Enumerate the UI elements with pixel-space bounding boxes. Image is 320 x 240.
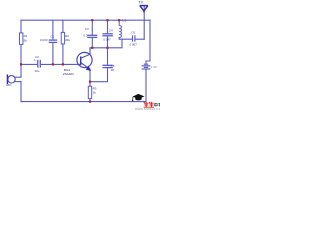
- wire antenna feed: [143, 6, 145, 40]
- watermark cap icon: [132, 94, 144, 102]
- capacitor C3 plates: [87, 35, 97, 37]
- junction node C4-top: [106, 19, 108, 21]
- svg-text:2SA401: 2SA401: [63, 72, 74, 76]
- watermark red character 2: [149, 102, 154, 108]
- transistor Q1 emitter: [81, 63, 91, 70]
- antenna TX: [140, 6, 149, 11]
- wire L1 lead to C6: [119, 38, 132, 40]
- wire collector rail: [90, 39, 122, 48]
- wire bottom rail: [21, 101, 146, 103]
- transistor Q1 base bar: [80, 56, 82, 65]
- junction node C1-base: [52, 63, 54, 65]
- svg-text:10u: 10u: [34, 69, 39, 73]
- svg-text:5k: 5k: [24, 38, 28, 42]
- svg-text:C6: C6: [131, 30, 135, 34]
- svg-text:MIC: MIC: [6, 83, 12, 87]
- svg-text:C3: C3: [85, 27, 89, 31]
- junction node antenna apex: [143, 11, 145, 13]
- junction node base-left: [20, 63, 22, 65]
- svg-text:0.047: 0.047: [103, 38, 111, 42]
- svg-text:L1: L1: [122, 19, 126, 23]
- wire mic lower stub: [15, 81, 21, 83]
- battery B1: [142, 64, 151, 69]
- wire C5 column: [90, 48, 108, 82]
- wire emitter column: [89, 70, 91, 102]
- wire C4 column: [107, 20, 109, 48]
- resistor R1: [20, 33, 23, 45]
- resistor R2: [61, 32, 64, 44]
- junction node C3-collector: [91, 47, 93, 49]
- microphone MIC bar: [6, 74, 8, 84]
- junction node C3-top: [91, 19, 93, 21]
- svg-text:0.033: 0.033: [40, 38, 48, 42]
- wire C6 to antenna line: [135, 38, 144, 40]
- svg-text:0.007: 0.007: [129, 42, 137, 46]
- transistor Q1 emitter arrow: [86, 66, 92, 71]
- capacitor C1 plates: [49, 40, 58, 42]
- resistor R3: [88, 86, 91, 98]
- wire base rail: [21, 63, 80, 65]
- watermark red character 1: [144, 102, 149, 108]
- wire left border mid: [20, 44, 22, 77]
- wire right border: [146, 20, 150, 64]
- svg-text:0.2: 0.2: [83, 33, 88, 37]
- watermark dark character 1: [155, 103, 158, 107]
- wire C1 column: [52, 20, 54, 64]
- svg-text:33k: 33k: [65, 38, 70, 42]
- wire left border upper: [20, 20, 22, 33]
- svg-text:18: 18: [111, 68, 115, 72]
- wire mic upper stub: [15, 76, 21, 78]
- svg-text:R2: R2: [65, 34, 69, 38]
- capacitor C2 plates: [38, 60, 41, 68]
- wire left border lower: [20, 82, 22, 102]
- inductor L1: [119, 20, 121, 37]
- wire R2 column: [62, 20, 64, 64]
- watermark dark character 2: [158, 103, 160, 106]
- svg-text:C1: C1: [50, 34, 54, 38]
- junction node R2-base: [62, 63, 64, 65]
- svg-text:1k: 1k: [93, 91, 97, 95]
- transistor Q1 collector: [81, 48, 90, 59]
- capacitor C6 plates: [133, 35, 135, 41]
- svg-text:TX: TX: [138, 1, 143, 5]
- junction node emitter: [89, 81, 91, 83]
- svg-text:+: +: [34, 58, 36, 62]
- microphone MIC body: [8, 76, 15, 83]
- wire top rail: [21, 19, 150, 21]
- svg-text:WWW.SSDZXZ.COM-DZZLXZ: WWW.SSDZXZ.COM-DZZLXZ: [135, 107, 160, 110]
- junction node R3-bottom: [89, 101, 91, 103]
- transistor Q1 circle: [77, 52, 92, 67]
- capacitor C5 plates: [102, 65, 112, 67]
- wire C3 column: [91, 20, 93, 48]
- junction node C4-collector: [106, 47, 108, 49]
- wire battery to bottom: [145, 69, 147, 101]
- capacitor C4 plates: [102, 34, 112, 36]
- junction node L1-top: [118, 19, 120, 21]
- svg-text:C4: C4: [109, 29, 113, 33]
- svg-text:1.5V: 1.5V: [151, 65, 157, 69]
